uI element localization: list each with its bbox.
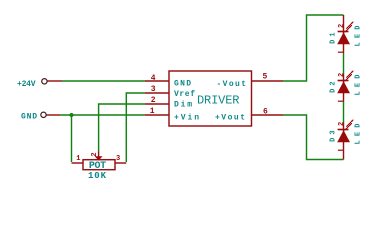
svg-text:+Vin: +Vin — [174, 113, 199, 122]
svg-text:6: 6 — [263, 108, 268, 117]
svg-text:3: 3 — [151, 85, 156, 94]
svg-text:Vref: Vref — [174, 90, 195, 99]
svg-text:2: 2 — [91, 152, 99, 156]
svg-text:10K: 10K — [88, 171, 107, 181]
svg-text:+Vout: +Vout — [215, 113, 245, 122]
svg-text:2: 2 — [151, 96, 156, 105]
svg-text:Dim: Dim — [174, 100, 192, 109]
svg-text:GND: GND — [21, 113, 37, 122]
svg-text:DRIVER: DRIVER — [197, 93, 240, 107]
svg-text:D2: D2 — [330, 81, 338, 93]
svg-text:4: 4 — [151, 74, 156, 83]
svg-text:D3: D3 — [330, 130, 338, 142]
svg-text:GND: GND — [174, 80, 191, 89]
svg-text:LED: LED — [354, 124, 362, 145]
svg-text:-Vout: -Vout — [217, 80, 247, 89]
svg-text:+24V: +24V — [17, 80, 36, 89]
svg-text:1: 1 — [76, 155, 80, 163]
svg-text:LED: LED — [354, 26, 362, 47]
svg-text:2: 2 — [338, 122, 346, 126]
svg-text:2: 2 — [338, 24, 346, 28]
svg-text:LED: LED — [354, 75, 362, 96]
svg-text:2: 2 — [338, 73, 346, 77]
svg-text:5: 5 — [263, 73, 268, 82]
svg-text:D1: D1 — [330, 32, 338, 44]
svg-text:3: 3 — [116, 155, 120, 163]
svg-text:1: 1 — [150, 107, 155, 116]
